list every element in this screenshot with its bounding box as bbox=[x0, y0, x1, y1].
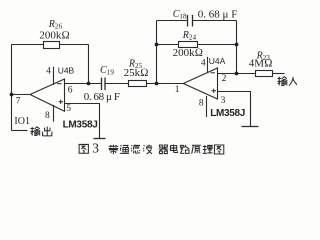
ground (U4A) bbox=[242, 126, 259, 128]
svg-text:4: 4 bbox=[46, 67, 51, 77]
svg-text:6: 6 bbox=[68, 85, 73, 95]
wire: C19 to R25 bbox=[105, 83, 129, 85]
svg-text:2: 2 bbox=[222, 74, 227, 84]
wire: U4A pin4 stub bbox=[207, 57, 209, 73]
capacitor C18 bbox=[188, 15, 193, 27]
wire: U4A pin3 to ground bbox=[218, 92, 251, 127]
wire: output lead bottom bbox=[12, 130, 28, 132]
svg-text:8: 8 bbox=[199, 98, 204, 108]
wire: R26 to drop bbox=[60, 44, 89, 46]
resistor R26 bbox=[44, 42, 60, 49]
output label glyph chu bbox=[43, 127, 52, 136]
caption glyph tu (figure) bbox=[79, 144, 88, 153]
caption glyph yuan bbox=[192, 145, 201, 154]
caption glyph li bbox=[203, 145, 213, 153]
caption glyph lu bbox=[180, 145, 189, 154]
svg-text:0. 68 μ F: 0. 68 μ F bbox=[84, 91, 120, 103]
caption glyph lv bbox=[131, 145, 140, 154]
op-amp U4B bbox=[30, 79, 65, 111]
svg-text:LM358J: LM358J bbox=[210, 108, 245, 119]
wire: U4B pin8 stub bbox=[53, 105, 55, 122]
svg-text:3: 3 bbox=[221, 96, 226, 106]
svg-text:4MΩ: 4MΩ bbox=[249, 58, 273, 70]
input label glyph ru bbox=[289, 77, 298, 86]
svg-text:25kΩ: 25kΩ bbox=[124, 67, 149, 79]
wire: U4B pin4 stub bbox=[53, 67, 55, 85]
ground (U4B) bbox=[94, 138, 106, 140]
wire: feedback drop to pin6 node bbox=[88, 45, 90, 84]
svg-text:200kΩ: 200kΩ bbox=[173, 47, 203, 59]
svg-text:3: 3 bbox=[92, 141, 99, 156]
caption glyph tong bbox=[120, 145, 129, 153]
wire: R24 row right bbox=[198, 44, 237, 46]
resistor R23 bbox=[256, 71, 273, 77]
node: R24 left junction bbox=[155, 43, 159, 47]
caption glyph qi bbox=[159, 145, 169, 154]
svg-text:5: 5 bbox=[66, 104, 71, 114]
wire: R24 row left bbox=[157, 44, 179, 46]
wire: U4B pin7 output bbox=[12, 94, 31, 96]
svg-text:7: 7 bbox=[16, 97, 21, 107]
wire: top wire to C18 bbox=[157, 20, 188, 22]
wire: U4B pin6 node row bbox=[65, 83, 102, 85]
resistor R25 bbox=[129, 81, 147, 87]
wire: left output rail bbox=[11, 45, 13, 131]
wire: feedback left rail bbox=[156, 21, 158, 84]
svg-text:0. 68 μ F: 0. 68 μ F bbox=[198, 9, 238, 21]
caption glyph bo bbox=[143, 145, 152, 154]
node: U4A output junction bbox=[155, 82, 159, 86]
plus input mark (U4B pin 5) bbox=[59, 100, 64, 104]
svg-text:4: 4 bbox=[201, 58, 206, 68]
plus input mark (U4A pin 3) bbox=[212, 89, 217, 93]
wire: top feedback to R26 bbox=[12, 44, 44, 46]
output label glyph shu bbox=[30, 127, 39, 136]
svg-text:IO1: IO1 bbox=[14, 116, 30, 127]
caption glyph tu bbox=[214, 145, 223, 154]
caption glyph dian bbox=[170, 145, 177, 153]
resistor R24 bbox=[179, 42, 198, 48]
svg-text:8: 8 bbox=[45, 111, 50, 121]
wire: R25 to U4A output bbox=[147, 83, 184, 85]
node: U4B pin6 junction bbox=[87, 82, 91, 86]
wire: U4A pin8 stub bbox=[206, 96, 208, 117]
svg-text:1: 1 bbox=[175, 85, 180, 95]
wire: U4B pin5 to ground bbox=[65, 104, 100, 139]
wire: right rail bbox=[236, 21, 238, 74]
wire: R23 to input bbox=[273, 73, 285, 75]
caption glyph dai bbox=[109, 145, 119, 155]
svg-text:U4A: U4A bbox=[209, 56, 226, 66]
svg-text:200kΩ: 200kΩ bbox=[39, 29, 69, 41]
minus input mark (U4B pin 6) bbox=[57, 83, 62, 85]
wire: U4A pin2 row to R23 bbox=[218, 73, 256, 75]
svg-text:U4B: U4B bbox=[58, 65, 75, 75]
svg-text:LM358J: LM358J bbox=[63, 120, 98, 131]
capacitor C19 bbox=[102, 78, 106, 91]
wire: C18 to right rail bbox=[193, 20, 237, 22]
node: R24 right junction bbox=[235, 43, 239, 47]
input label glyph shu bbox=[277, 77, 286, 86]
node: output junction bbox=[10, 93, 14, 97]
node: U4A pin2 junction bbox=[235, 72, 239, 76]
op-amp U4A bbox=[183, 68, 217, 99]
minus input mark (U4A pin 2) bbox=[211, 72, 216, 74]
